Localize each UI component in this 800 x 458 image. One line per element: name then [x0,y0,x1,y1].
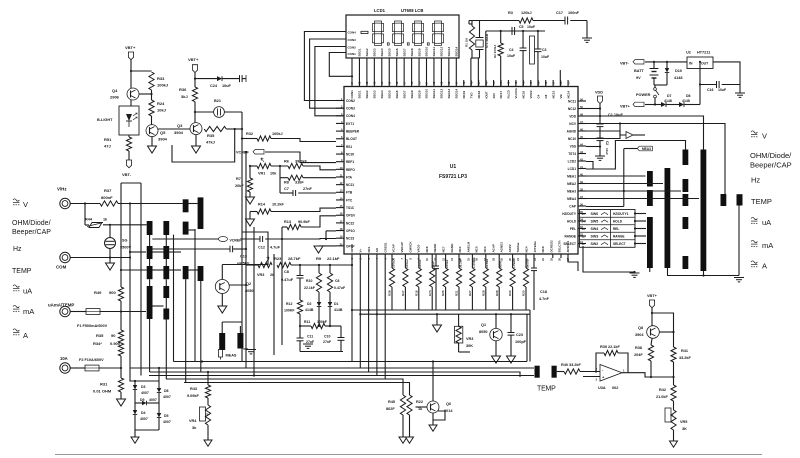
svg-text:C2: C2 [605,141,609,145]
svg-text:TEMua: TEMua [516,242,520,252]
svg-text:OHM/Diode/: OHM/Diode/ [12,220,51,227]
wire bridge bottom [135,429,159,431]
wire LCD CON2 loop to U1 CON4 [315,47,346,116]
LCD decimal point [387,43,389,45]
switch contact bar left [147,246,153,259]
wire Q5 collector to Q3 base [158,128,190,130]
svg-text:9.09kF: 9.09kF [187,394,200,398]
svg-text:BATT: BATT [634,69,645,73]
ground below VR4 [207,425,209,440]
resistor R13 90.9kF [287,224,301,229]
switch contact bar left [183,222,189,235]
svg-text:VBCAP: VBCAP [400,242,404,253]
wire colB bar links [165,235,167,246]
svg-text:SEG9: SEG9 [417,90,421,98]
wire resistor network bottom bus [352,309,530,311]
wire LCD to U1 top pin [388,58,390,87]
wire B-LIGHT to R51 [128,135,130,137]
switch contact bar right [683,217,689,229]
svg-text:414B: 414B [305,308,314,312]
svg-text:uA: uA [762,218,771,227]
svg-text:HOLD: HOLD [567,219,577,223]
svg-text:D10: D10 [675,69,682,73]
wire bus y361 [174,361,528,363]
svg-text:R8: R8 [284,181,289,185]
wire riser x141 [140,183,142,376]
svg-text:28.7kF: 28.7kF [288,256,301,261]
ground at COM [109,258,111,264]
wire MEA3 to bar col3 [578,190,681,192]
wire VBT+ rail to R33 [131,70,152,72]
ground below C2 [595,155,605,157]
svg-text:D9: D9 [140,398,145,402]
wire R42 to VR5 [673,401,675,410]
svg-text:4007: 4007 [140,417,148,421]
wire bars bottom rail [667,275,739,277]
wire SW block ground [583,246,635,272]
AGND buffer [578,130,620,132]
svg-text:SW4: SW4 [591,227,599,231]
svg-text:VLCDA: VLCDA [514,87,518,98]
switch contact bar left [147,266,153,279]
svg-text:R38: R38 [388,290,392,296]
svg-text:U3A: U3A [598,386,606,390]
switch SW5 HOLD [580,216,636,218]
wire op-amp output [622,373,674,377]
svg-text:FS9721 LP3: FS9721 LP3 [439,174,467,180]
svg-text:SG: SG [122,239,128,243]
wire to VCREF pill 2 [152,238,218,240]
svg-text:SELECT: SELECT [613,242,626,246]
connector slot [530,36,535,64]
svg-text:12: 12 [582,235,586,239]
svg-text:4.7nF: 4.7nF [539,297,550,301]
svg-text:L7EM8: L7EM8 [512,258,516,268]
wire bottom pin 2 drop [359,255,361,369]
svg-text:11: 11 [582,242,586,246]
wire left riser to bridge [130,368,135,381]
wire below bar colC [185,279,187,382]
wire LCD to U1 top pin [411,58,413,87]
svg-text:MEAS: MEAS [226,354,237,358]
svg-text:VDD: VDD [569,114,576,118]
ground below Q3 [195,135,197,146]
svg-text:SEG2: SEG2 [365,48,369,56]
svg-text:C3: C3 [542,48,547,52]
wire LCD to U1 top pin [381,58,383,87]
resistor R17 100uJ under U1 [404,255,406,269]
wire Q6 collector [432,362,434,402]
resistor R2 200kJ [500,31,502,43]
resistor R33 100kJ [149,72,154,90]
svg-text:Q6: Q6 [446,402,451,406]
wire to fuse F2 [70,367,85,369]
wire V/Hz to R37 [70,203,100,205]
svg-text:SELCTR: SELCTR [558,240,562,253]
wire loop around Q2 [222,232,268,265]
wire LCD to U1 top pin [455,58,457,87]
resistor R39 22.1kF [604,350,618,355]
resistor R1 1M [468,21,470,25]
wire LCD CON3 loop to U1 CON3 [310,39,346,108]
svg-text:R51: R51 [104,137,112,142]
svg-text:4148: 4148 [674,76,682,80]
LCD decimal point [427,43,429,45]
svg-text:SEG10: SEG10 [425,46,429,56]
svg-text:R29: R29 [495,290,499,296]
svg-text:414B: 414B [334,308,343,312]
svg-text:OP2O: OP2O [350,243,354,252]
wire switch row 308 [152,305,164,307]
svg-text:LCD1: LCD1 [374,8,386,13]
svg-text:062: 062 [612,386,618,390]
svg-text:47kJ: 47kJ [206,140,215,145]
wire feedback R39 [596,353,604,372]
svg-text:10.2kF: 10.2kF [272,203,285,207]
svg-text:PEL: PEL [570,227,576,231]
wire R24 to Q5 [151,116,153,125]
wire OP1O stub [326,230,336,232]
svg-text:10uF: 10uF [507,54,516,58]
fuse F2 F10A/600V [85,365,99,371]
wire cross y183 [121,182,141,184]
svg-text:ACAP: ACAP [491,244,495,253]
svg-text:Beeper/CAP: Beeper/CAP [12,229,51,236]
svg-text:NC17: NC17 [499,90,503,98]
resistor R49 900 [120,183,122,287]
svg-text:NC4: NC4 [525,246,529,252]
wire VB pin stub [559,70,561,87]
svg-text:3904: 3904 [635,333,644,337]
svg-text:MEA3: MEA3 [642,147,651,151]
wire VBT+ rail [645,104,661,106]
svg-text:RLCD: RLCD [507,89,511,98]
svg-text:CON3: CON3 [346,107,355,111]
switch contact bar left [183,199,189,212]
svg-text:NC5: NC5 [475,246,479,252]
LCD digit 8 #3 [415,21,422,23]
capacitor C1 10uF [597,123,604,125]
resistor R28 10.6k3 under U1 [485,255,487,269]
svg-text:3904: 3904 [174,130,184,135]
svg-text:SEG4: SEG4 [380,48,384,56]
switch contact bar right [701,150,707,272]
switch contact bar left [163,221,169,235]
wire R40 to op-amp [580,371,600,373]
svg-text:D2: D2 [307,302,312,306]
svg-text:VR4: VR4 [189,419,197,423]
label V right [751,131,757,133]
capacitor C7 27nF [280,192,293,194]
svg-text:NC6: NC6 [425,246,429,252]
resistor R12 100KF [297,300,302,314]
resistor R35b 90 [118,330,123,343]
resistor R7 20kF [249,166,251,178]
wire MEA2 to bar col2 [578,183,663,185]
svg-text:R3: R3 [508,11,513,15]
svg-text:R14: R14 [258,203,266,207]
wire bus y382 [184,383,410,396]
ground below R31 [120,392,122,399]
capacitor C4 10uF [522,31,524,48]
ground below C16 [739,85,741,94]
ground at OP3P [314,246,323,253]
wire col1 bottom tie [649,268,651,272]
svg-text:IOUT: IOUT [484,91,488,98]
svg-text:90R0: 90R0 [499,260,503,268]
svg-text:TST4: TST4 [568,152,576,156]
switch block SW2-SW6 outline [580,210,636,248]
resistor R26 100kJ under U1 [445,255,447,269]
svg-text:OUT: OUT [701,62,709,66]
svg-text:NC3: NC3 [483,246,487,252]
wire Q2 collector [229,284,246,286]
wire C7 left riser [279,166,281,193]
svg-text:SEG2: SEG2 [365,90,369,98]
wire VCREF to REF1 [265,152,336,163]
label V left [13,199,19,201]
diode D10 4148 [666,62,668,68]
svg-text:SEG4: SEG4 [380,90,384,98]
svg-text:C11: C11 [307,335,313,339]
svg-text:Q4: Q4 [112,88,118,93]
terminal COM [60,252,70,262]
ground below R7 [249,192,251,197]
svg-text:SEG3: SEG3 [373,90,377,98]
op-amp U3A 062 [600,365,622,382]
svg-text:AGND: AGND [567,129,577,133]
wire R13 to OP1N [301,216,336,227]
switch SW3 RANGE [580,231,636,233]
wire CAP pin [586,206,624,208]
svg-text:SEG7: SEG7 [402,48,406,56]
transistor Q8 3904 [647,326,660,339]
switch contact bar left [183,266,189,279]
wire R3 to C17 [533,20,565,22]
wire LCD to U1 top pin [418,58,420,87]
wire SG to R44 net [109,225,111,237]
svg-text:AGND2: AGND2 [500,242,504,253]
capacitor C17 100nF [564,17,566,25]
spark gap SG 3500V [105,238,116,249]
svg-text:REF1: REF1 [346,160,354,164]
wire F2 to node [99,367,121,369]
wire regulator output [713,62,740,85]
resistor R45 862F [400,395,405,415]
svg-text:R36: R36 [179,87,187,92]
svg-text:R13: R13 [284,220,291,224]
svg-text:100kJ: 100kJ [272,132,283,136]
resistor R38 204F [648,345,653,361]
wire LCD to U1 top pin [396,58,398,87]
resistor R22 1k [407,395,412,415]
wire NC10 pin jog up [586,124,620,139]
svg-text:V: V [23,200,28,209]
svg-text:100kF: 100kF [317,320,328,324]
svg-text:C24: C24 [210,84,218,88]
wire R36 to Q3 [194,102,196,123]
svg-text:90: 90 [111,333,116,338]
svg-text:NC11: NC11 [568,99,576,103]
resistor R8 316F [288,175,303,180]
svg-text:A: A [23,331,28,340]
wire switch row 270 [121,269,147,271]
wire bus y368 [130,367,534,369]
switch contact bar right [683,179,689,192]
svg-text:Hz: Hz [751,176,760,185]
wire colA bar links [149,235,151,246]
svg-text:3904: 3904 [158,137,168,142]
node VBT- [128,151,130,160]
svg-text:TEMP: TEMP [537,386,556,393]
svg-text:SEG13: SEG13 [447,88,451,98]
svg-text:R16: R16 [414,290,418,296]
wire bottom pin 4 drop [376,255,378,376]
svg-text:XIN: XIN [492,93,496,98]
capacitor C8 0.47uF [299,265,301,276]
svg-text:NC23: NC23 [346,237,354,241]
wire Q8 emitter to R38 [651,339,652,346]
svg-text:ADP2: ADP2 [508,244,512,252]
switch contact bar right [683,194,689,206]
svg-text:OP1N: OP1N [346,214,355,218]
wire VBT+ down [194,72,196,87]
switch contact bar left [163,266,169,279]
backlight module B-LIGHT [119,106,139,135]
wire bus vertical x254 [253,227,255,376]
wire LCD to U1 top pin [448,58,450,87]
svg-text:10uF: 10uF [541,55,550,59]
svg-text:47J: 47J [104,144,111,149]
LCD digit 8 #4 [435,21,442,23]
wire R8 to FTA [303,177,336,179]
svg-text:RANGE: RANGE [564,234,576,238]
svg-text:39.2kF: 39.2kF [295,160,308,164]
wire pin27 drop [568,255,578,272]
ground under cluster [303,343,313,345]
svg-text:10uF: 10uF [222,84,232,88]
capacitor C13 uF/50V [152,248,230,250]
svg-text:R24: R24 [157,101,165,106]
wire bus vertical x246 [245,152,247,368]
svg-text:R33: R33 [157,76,165,81]
wire R23 to pin1 column [291,264,352,266]
svg-text:uA: uA [23,287,32,296]
svg-text:Q8: Q8 [638,326,643,330]
svg-text:DCRES2: DCRES2 [549,240,553,253]
svg-text:SEG1: SEG1 [358,48,362,56]
svg-text:100KF: 100KF [284,309,295,313]
svg-text:33.2kF: 33.2kF [679,356,692,360]
transistor Q5 3904 [146,125,158,137]
wire R34 to 10A node [120,356,122,378]
svg-text:VBT+: VBT+ [125,45,136,50]
net pill VCREF 2 [219,237,228,242]
ground near MEAS [243,348,248,350]
wire LCD to U1 top pin [358,58,360,87]
crystal ST1 4MHz [479,21,481,38]
wire bottom pin 1 drop [351,255,353,362]
capacitor C3 10uF [537,31,539,49]
svg-text:SEG3: SEG3 [373,48,377,56]
svg-text:14: 14 [582,220,586,224]
switch contact bar left [198,197,204,229]
wire SG to COM [109,249,111,258]
wire F1 to node [100,311,146,313]
svg-text:SEG1: SEG1 [358,90,362,98]
resistor R3 120kJ [519,18,533,23]
wire rail y31 [486,30,545,32]
resistor R16 100nF under U1 [418,255,420,269]
svg-text:D3: D3 [141,385,146,389]
svg-text:SEG6: SEG6 [395,48,399,56]
svg-text:27nF: 27nF [432,261,436,268]
resistor R40 33.2kF [564,369,580,374]
svg-text:SEG12: SEG12 [440,46,444,56]
wire C17 to ground [586,21,588,39]
wire R32 net [242,138,257,140]
svg-text:0.01 OHM: 0.01 OHM [93,389,112,394]
svg-text:VBT+: VBT+ [620,105,631,109]
svg-text:R11: R11 [304,320,310,324]
svg-text:21.0kF: 21.0kF [656,395,669,399]
svg-text:NC16: NC16 [522,90,526,98]
svg-text:VR3: VR3 [257,273,264,277]
op-amp U1 FS9721 LP3 IC body [344,87,578,255]
svg-text:NENO: NENO [433,243,437,252]
diode D1 414B [329,292,331,302]
svg-text:Q3: Q3 [177,123,183,128]
wire R35 to node [226,128,242,130]
transistor Q6 9014 [427,401,439,413]
switch contact bar left [163,246,169,259]
wire VSS pin to C2 net [586,146,600,148]
svg-text:TYD: TYD [469,92,473,99]
resistor R21 39.2kF under U1 [458,255,460,269]
resistor R42 21.0kF [671,385,676,401]
svg-text:BEEPER: BEEPER [346,130,360,134]
wire op-amp plus input [583,376,600,378]
svg-text:R38: R38 [635,346,642,350]
svg-text:100kJ: 100kJ [157,83,168,88]
svg-text:B-LIGHT: B-LIGHT [97,118,113,122]
svg-text:C5: C5 [519,25,524,29]
svg-text:V+: V+ [359,248,363,252]
resistor R11 100kF [311,323,325,328]
svg-text:F1 F500mA/600V: F1 F500mA/600V [77,324,108,328]
wire to fuse F1 [70,311,86,313]
svg-text:D4: D4 [141,411,146,415]
svg-text:15: 15 [582,212,586,216]
diode D8 4148 [679,102,684,107]
transistor Q2 8050 [221,265,223,280]
svg-text:EXT1: EXT1 [346,122,354,126]
svg-text:8050: 8050 [479,330,487,334]
wire crystal bottom to pins [470,58,472,87]
wire COM riser [129,204,131,369]
svg-text:NC19: NC19 [462,90,466,98]
switch contact bar left [163,309,169,320]
ground below C23 [507,356,516,363]
svg-text:R42: R42 [659,388,666,392]
wire col6 bar down [738,206,740,276]
svg-text:POWER: POWER [636,93,651,97]
wire MEAS bars up [221,322,223,333]
svg-text:C12: C12 [258,246,265,250]
svg-text:IN: IN [689,62,693,66]
ground under SW area [630,272,640,274]
resistor R30 5k0V2 under U1 [525,255,527,269]
